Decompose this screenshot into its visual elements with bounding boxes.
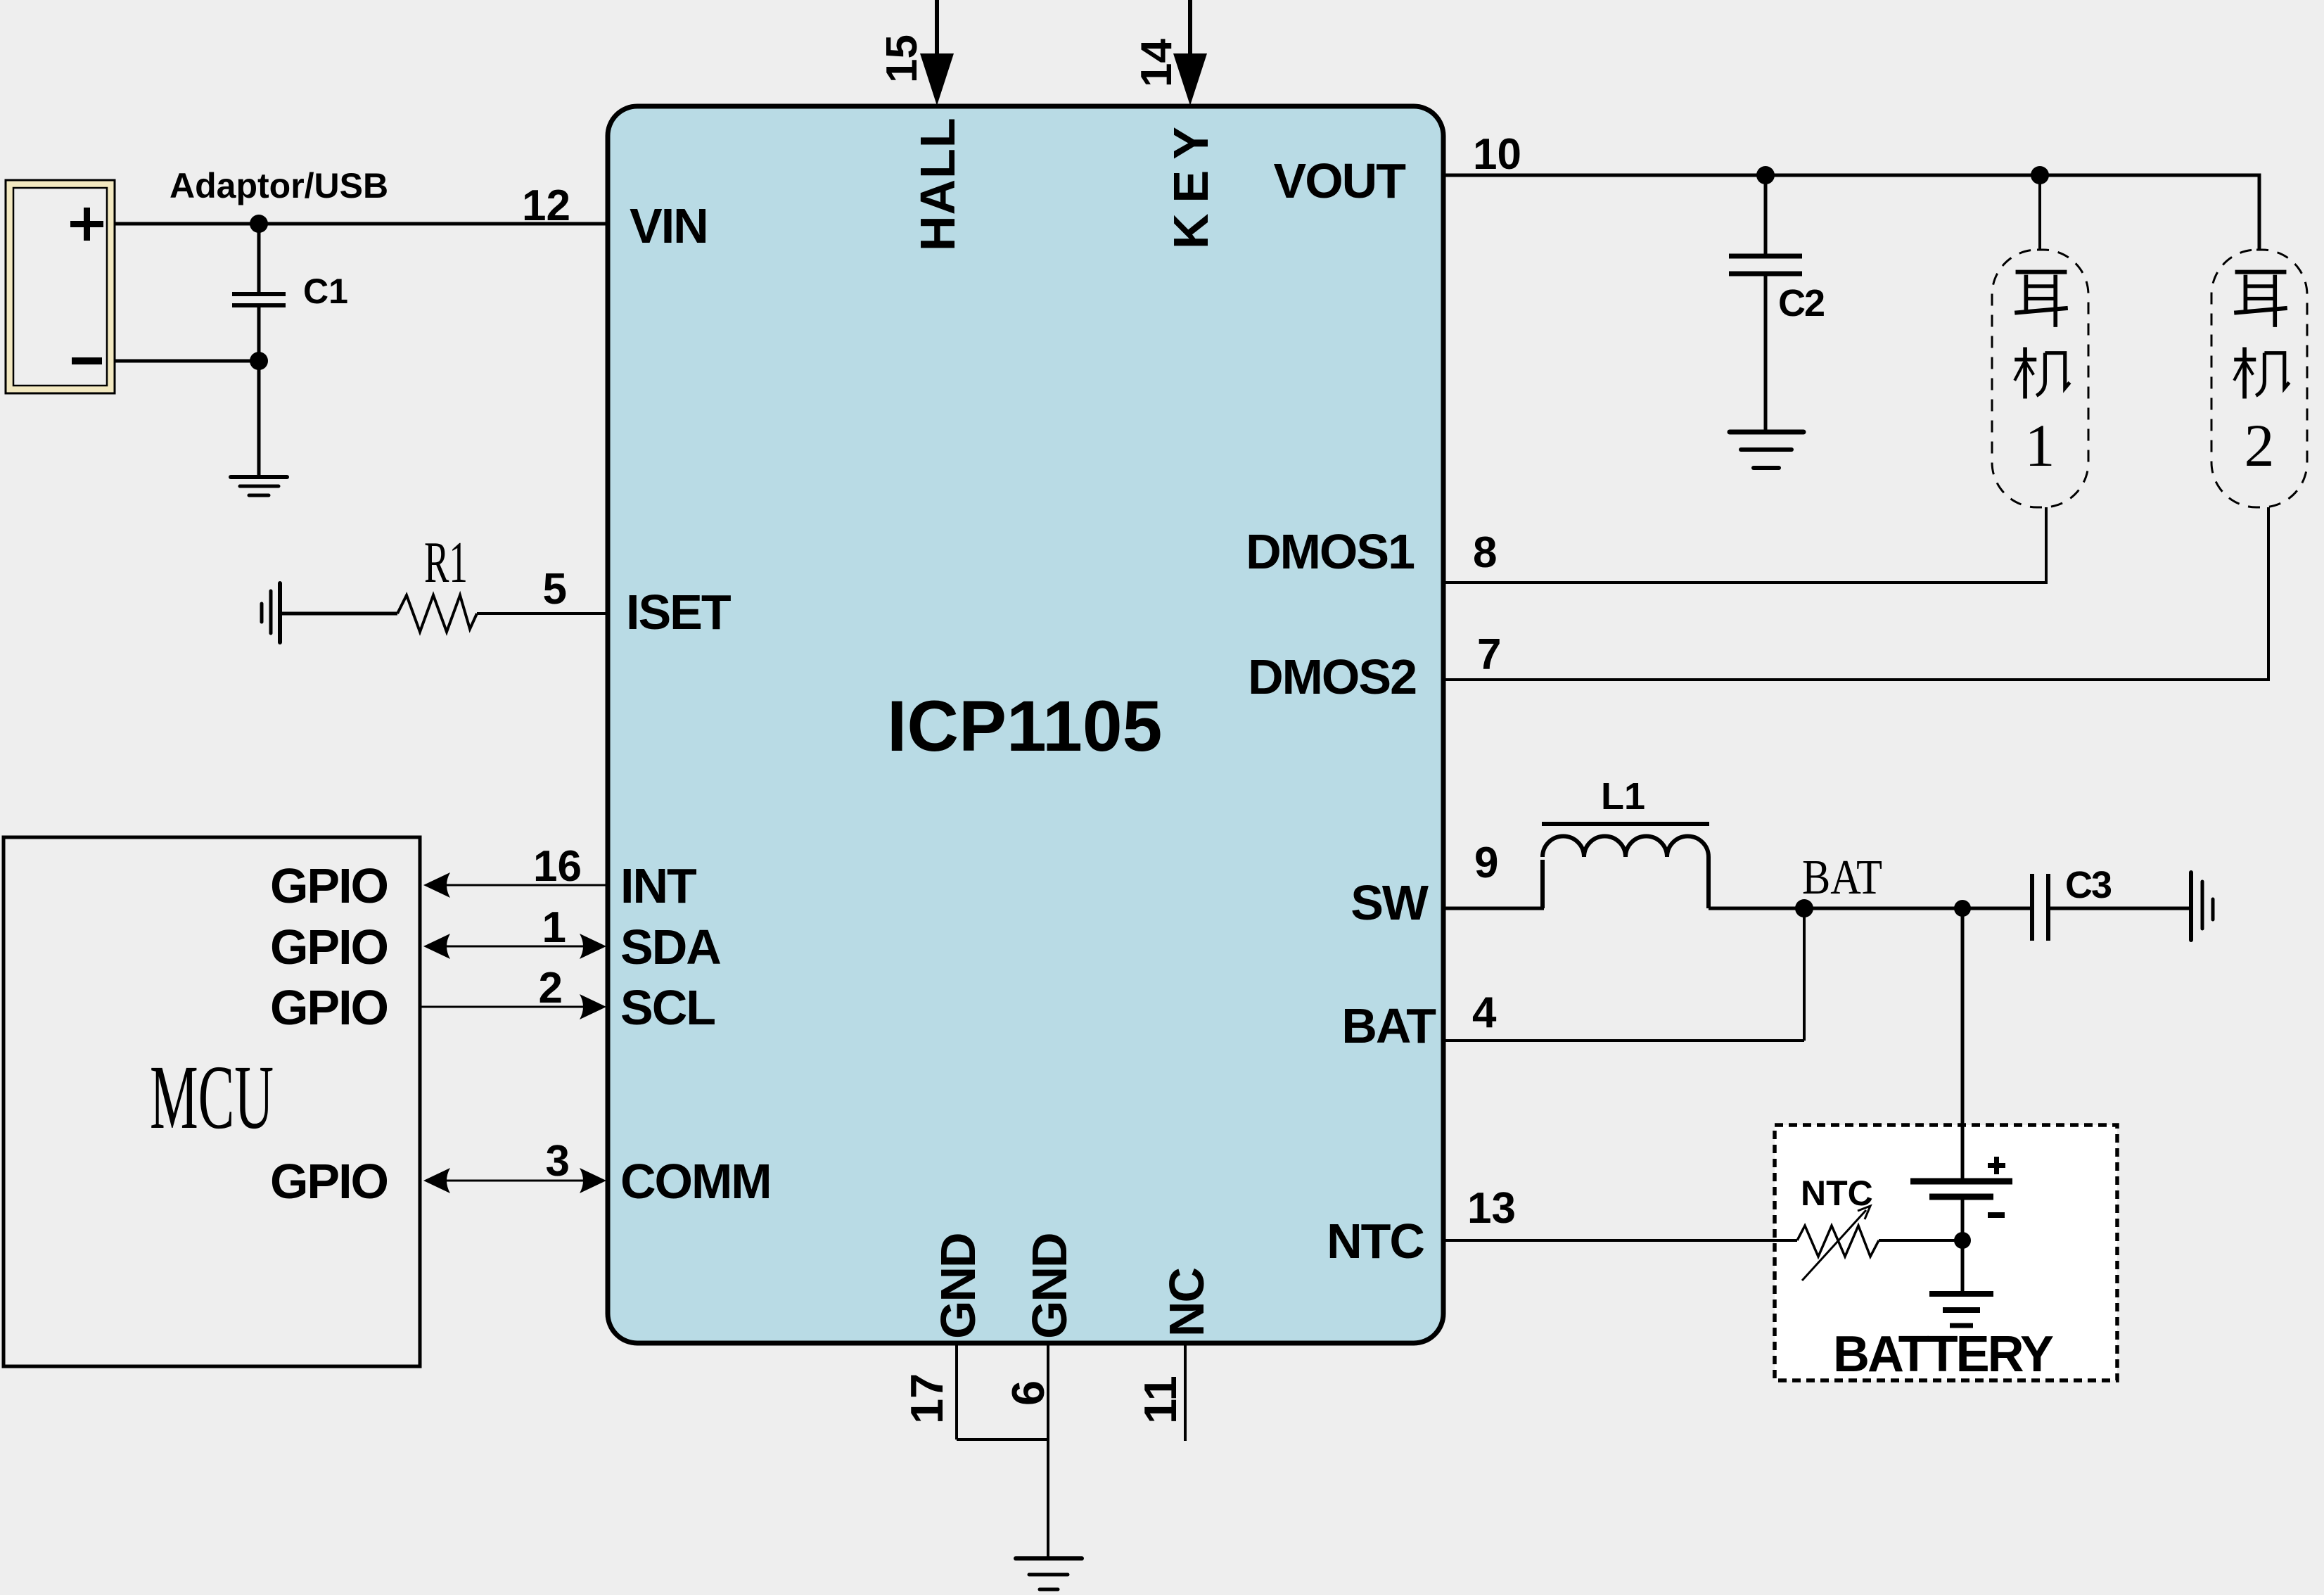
wire GND pin 6 to ground xyxy=(1047,1343,1049,1556)
wire DMOS2 (pin 7) to earphone2 xyxy=(1443,507,2268,680)
wire VOUT junction to earphone1 xyxy=(2038,175,2041,250)
wire BAT (pin 4) xyxy=(1443,1039,1804,1042)
svg-text:MCU: MCU xyxy=(150,1047,274,1148)
svg-text:13: 13 xyxy=(1467,1184,1516,1233)
wire VIN (pin 12) xyxy=(115,222,608,226)
svg-text:GPIO: GPIO xyxy=(270,858,388,913)
svg-text:BAT: BAT xyxy=(1802,851,1882,905)
wire BAT node down to battery plus xyxy=(1961,908,1965,1178)
capacitor C3 xyxy=(2030,874,2034,941)
junction dot VOUT/earphone1 xyxy=(2031,166,2049,184)
wire R1 to ISET (pin 5) xyxy=(477,612,608,615)
svg-text:2: 2 xyxy=(2245,412,2275,479)
svg-text:7: 7 xyxy=(1477,630,1501,679)
earphone1 label 耳 xyxy=(2015,272,2068,327)
svg-text:Adaptor/USB: Adaptor/USB xyxy=(170,166,388,205)
svg-text:4: 4 xyxy=(1472,989,1497,1037)
svg-text:INT: INT xyxy=(620,858,696,913)
svg-text:VIN: VIN xyxy=(630,198,708,253)
svg-text:15: 15 xyxy=(878,34,926,83)
svg-text:GND: GND xyxy=(1022,1233,1077,1339)
wire VOUT (pin 10) xyxy=(1443,175,2259,250)
svg-text:1: 1 xyxy=(542,903,566,952)
ground (C3 right, rotated) xyxy=(2191,872,2213,940)
thermistor arrow xyxy=(1802,1210,1866,1281)
svg-text:GPIO: GPIO xyxy=(270,1154,388,1209)
earphone2 label 机 xyxy=(2234,348,2289,399)
svg-text:BAT: BAT xyxy=(1341,998,1436,1053)
svg-text:KEY: KEY xyxy=(1163,116,1218,249)
svg-text:5: 5 xyxy=(543,565,567,614)
svg-text:9: 9 xyxy=(1474,839,1498,887)
ground (C1) xyxy=(231,477,287,495)
junction dot BAT node / pin4 xyxy=(1795,899,1813,917)
capacitor C1 xyxy=(257,224,261,292)
svg-text:GND: GND xyxy=(931,1233,985,1339)
junction dot minus/C1 xyxy=(250,352,268,370)
svg-text:SCL: SCL xyxy=(620,980,715,1035)
wire COMM (pin 3) bidirectional arrows xyxy=(446,1180,584,1182)
svg-text:HALL: HALL xyxy=(910,117,965,251)
source plus terminal xyxy=(70,221,103,227)
svg-text:SDA: SDA xyxy=(620,920,720,974)
wire BAT node down to pin 4 wire xyxy=(1803,908,1806,1041)
earphone2 label 耳 xyxy=(2234,272,2287,327)
svg-text:DMOS2: DMOS2 xyxy=(1248,649,1416,704)
wire C3 to ground xyxy=(2048,907,2191,910)
junction dot BAT node / battery xyxy=(1954,900,1971,917)
svg-text:11: 11 xyxy=(1135,1375,1186,1424)
wire INT (pin 16) to MCU with left arrowhead xyxy=(446,884,608,887)
junction dot VOUT/C2 xyxy=(1756,166,1775,184)
svg-text:14: 14 xyxy=(1132,39,1181,87)
MCU block xyxy=(4,837,420,1366)
svg-text:C2: C2 xyxy=(1778,282,1824,324)
battery cell BT1 xyxy=(1910,1178,2012,1185)
svg-text:1: 1 xyxy=(2025,412,2055,479)
svg-text:SW: SW xyxy=(1351,875,1429,930)
svg-text:ICP1105: ICP1105 xyxy=(887,686,1162,766)
wire battery minus to ground xyxy=(1961,1200,1965,1292)
svg-text:COMM: COMM xyxy=(620,1154,771,1209)
battery box (dashed) xyxy=(1775,1125,2117,1380)
battery minus sign xyxy=(1988,1212,2005,1218)
svg-text:C1: C1 xyxy=(303,272,348,311)
ground (battery) xyxy=(1929,1294,1993,1326)
svg-text:NTC: NTC xyxy=(1801,1174,1873,1213)
wire DMOS1 (pin 8) to earphone1 xyxy=(1443,507,2046,583)
junction dot VIN/C1 xyxy=(250,215,268,233)
DC source connector (Adaptor/USB) xyxy=(6,180,115,393)
wire SW (pin 9) to L1 xyxy=(1443,907,1544,910)
svg-text:C3: C3 xyxy=(2065,864,2112,906)
svg-text:BATTERY: BATTERY xyxy=(1833,1326,2053,1383)
wire C1 to ground xyxy=(257,361,261,477)
svg-text:L1: L1 xyxy=(1601,775,1645,818)
svg-text:8: 8 xyxy=(1473,528,1497,577)
wire NTC (pin 13) xyxy=(1443,1239,1797,1242)
svg-text:2: 2 xyxy=(539,964,563,1012)
svg-text:VOUT: VOUT xyxy=(1274,153,1406,208)
battery plus sign xyxy=(1988,1163,2005,1168)
svg-text:NC: NC xyxy=(1159,1268,1214,1337)
junction dot battery/NTC xyxy=(1954,1232,1971,1249)
wire ground to R1 xyxy=(280,612,397,616)
wire NTC zigzag to battery junction xyxy=(1879,1239,1962,1242)
svg-text:10: 10 xyxy=(1473,130,1521,179)
svg-text:16: 16 xyxy=(533,842,582,891)
svg-text:GPIO: GPIO xyxy=(270,980,388,1035)
earphone1 label 机 xyxy=(2015,348,2069,399)
wire joining GND pins xyxy=(957,1438,1048,1441)
wire SCL (pin 2) with right arrowhead xyxy=(420,1006,584,1008)
wire NC stub (pin 11) xyxy=(1184,1343,1187,1441)
svg-text:12: 12 xyxy=(522,182,570,230)
IC U1 ICP1105 body xyxy=(608,106,1443,1343)
svg-text:NTC: NTC xyxy=(1327,1214,1424,1269)
svg-text:DMOS1: DMOS1 xyxy=(1246,524,1414,579)
wire SDA (pin 1) bidirectional arrows xyxy=(446,946,584,948)
svg-text:6: 6 xyxy=(1002,1380,1054,1406)
KEY input arrow (pin 14) xyxy=(1188,0,1192,56)
svg-text:3: 3 xyxy=(546,1137,570,1186)
source minus terminal xyxy=(72,357,102,364)
wire source minus to C1 xyxy=(115,360,259,363)
wire GND pin 17 xyxy=(955,1343,958,1440)
capacitor C2 xyxy=(1764,175,1768,254)
ground (GND pins) xyxy=(1016,1558,1082,1589)
thermistor NTC zigzag xyxy=(1797,1226,1879,1257)
wire VOUT corner to earphone2 handled above; earphone2 box (dashed) xyxy=(2211,250,2307,507)
HALL input arrow (pin 15) xyxy=(935,0,939,56)
svg-text:R1: R1 xyxy=(424,530,468,595)
svg-text:17: 17 xyxy=(901,1373,952,1424)
wire L1 to BAT node xyxy=(1709,907,2032,910)
resistor R1 xyxy=(397,595,477,632)
earphone1 box (dashed) xyxy=(1992,250,2088,507)
ground (C2) xyxy=(1730,432,1803,468)
svg-text:GPIO: GPIO xyxy=(270,920,388,974)
ground (R1 left, rotated) xyxy=(262,583,280,642)
svg-text:ISET: ISET xyxy=(626,585,731,640)
inductor L1 xyxy=(1543,837,1709,909)
